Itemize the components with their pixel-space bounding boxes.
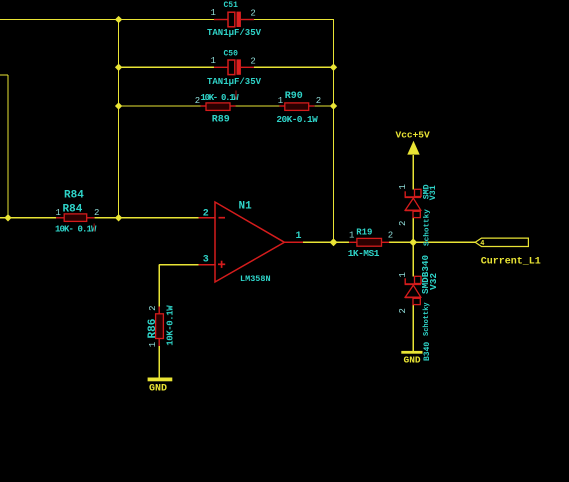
svg-text:GND: GND bbox=[149, 384, 167, 395]
svg-text:R84: R84 bbox=[64, 190, 84, 202]
svg-text:B340: B340 bbox=[423, 342, 432, 361]
svg-text:C50: C50 bbox=[224, 49, 239, 58]
svg-text:2: 2 bbox=[316, 96, 321, 106]
svg-text:2: 2 bbox=[398, 308, 408, 313]
svg-text:2: 2 bbox=[250, 8, 255, 18]
svg-text:2: 2 bbox=[195, 96, 200, 106]
wire opamp output row y=242.3 bbox=[303, 241, 475, 243]
wire R84 row y=217.8 bbox=[0, 217, 199, 219]
svg-text:2: 2 bbox=[250, 56, 255, 66]
svg-text:1: 1 bbox=[148, 342, 158, 347]
svg-text:20K-0.1W: 20K-0.1W bbox=[276, 114, 318, 125]
svg-text:R90: R90 bbox=[285, 91, 303, 102]
port Current_L1 bbox=[475, 238, 528, 246]
op-amp N1 bbox=[199, 202, 304, 282]
svg-text:1: 1 bbox=[56, 208, 61, 218]
resistor R19 bbox=[349, 238, 389, 246]
wire left-mid vertical x=118.6 bbox=[118, 20, 120, 218]
svg-text:1: 1 bbox=[211, 56, 216, 66]
junction output node / right vertical bbox=[330, 238, 338, 246]
junction output node / diode column bbox=[409, 238, 417, 246]
junction C50 row / right vertical bbox=[330, 64, 337, 71]
svg-text:1: 1 bbox=[398, 184, 408, 189]
resistor R84 bbox=[56, 214, 94, 222]
svg-text:1: 1 bbox=[296, 231, 302, 242]
junction resistor row / mid vertical bbox=[115, 102, 122, 109]
svg-text:1: 1 bbox=[278, 96, 283, 106]
svg-text:2: 2 bbox=[94, 208, 99, 218]
diode V32 bbox=[405, 276, 421, 304]
svg-text:3: 3 bbox=[203, 254, 209, 265]
svg-text:Vcc+5V: Vcc+5V bbox=[396, 130, 431, 141]
svg-text:1: 1 bbox=[211, 8, 216, 18]
svg-text:2: 2 bbox=[148, 305, 158, 310]
junction R84 row / mid vertical bbox=[115, 214, 122, 221]
svg-text:10K- 0.1W: 10K- 0.1W bbox=[201, 93, 240, 103]
svg-text:1K-MS1: 1K-MS1 bbox=[348, 248, 380, 259]
svg-text:2: 2 bbox=[398, 221, 408, 226]
resistor R89 bbox=[201, 103, 236, 111]
junction at top of mid vertical bbox=[115, 16, 122, 23]
capacitor C50 bbox=[214, 59, 254, 74]
svg-text:Current_L1: Current_L1 bbox=[481, 257, 541, 268]
wire diode column x=413.2 bbox=[412, 155, 414, 351]
resistor R86 bbox=[156, 307, 164, 347]
svg-text:R84: R84 bbox=[63, 204, 83, 216]
svg-text:V32: V32 bbox=[428, 273, 439, 290]
capacitor C51 bbox=[214, 12, 254, 27]
svg-text:N1: N1 bbox=[239, 201, 253, 213]
svg-text:LM358N: LM358N bbox=[240, 274, 271, 284]
ground GND under V32 bbox=[401, 351, 422, 354]
junction C50 row / mid vertical bbox=[115, 64, 122, 71]
svg-text:V31: V31 bbox=[429, 185, 438, 200]
junction R84 row / left vertical bbox=[4, 214, 11, 221]
ground GND under R86 bbox=[148, 378, 173, 382]
wire opamp pin3 bend to R86 bbox=[159, 265, 198, 378]
svg-text:TAN1µF/35V: TAN1µF/35V bbox=[207, 28, 262, 38]
svg-text:1: 1 bbox=[398, 272, 408, 277]
wire top rail y=19.5 bbox=[0, 19, 334, 21]
svg-text:Schottky: Schottky bbox=[423, 209, 431, 246]
diode V31 bbox=[405, 189, 421, 217]
svg-text:10K- 0.1W: 10K- 0.1W bbox=[55, 225, 97, 235]
svg-text:1: 1 bbox=[349, 231, 354, 241]
svg-text:Schottky: Schottky bbox=[423, 302, 431, 336]
svg-text:TAN1µF/35V: TAN1µF/35V bbox=[207, 77, 262, 87]
svg-text:2: 2 bbox=[203, 209, 209, 220]
wire C50 row y=67.3 bbox=[119, 66, 334, 68]
wire resistor row y=106 bbox=[119, 105, 334, 107]
wire far-left L bend bbox=[0, 75, 8, 218]
svg-text:10K-0.1W: 10K-0.1W bbox=[165, 305, 175, 346]
junction resistor row / right vertical bbox=[330, 102, 337, 109]
red tick after R89 value bbox=[235, 91, 237, 100]
svg-text:R89: R89 bbox=[212, 115, 230, 126]
resistor R90 bbox=[279, 103, 314, 111]
svg-text:2: 2 bbox=[388, 231, 393, 241]
red tick after R84 value bbox=[93, 224, 95, 232]
svg-text:R86: R86 bbox=[147, 319, 159, 339]
svg-text:C51: C51 bbox=[224, 1, 239, 10]
svg-text:4: 4 bbox=[480, 240, 484, 248]
svg-text:R19: R19 bbox=[356, 228, 372, 238]
svg-text:GND: GND bbox=[404, 355, 421, 366]
wire right vertical x=333.5 bbox=[333, 20, 335, 243]
